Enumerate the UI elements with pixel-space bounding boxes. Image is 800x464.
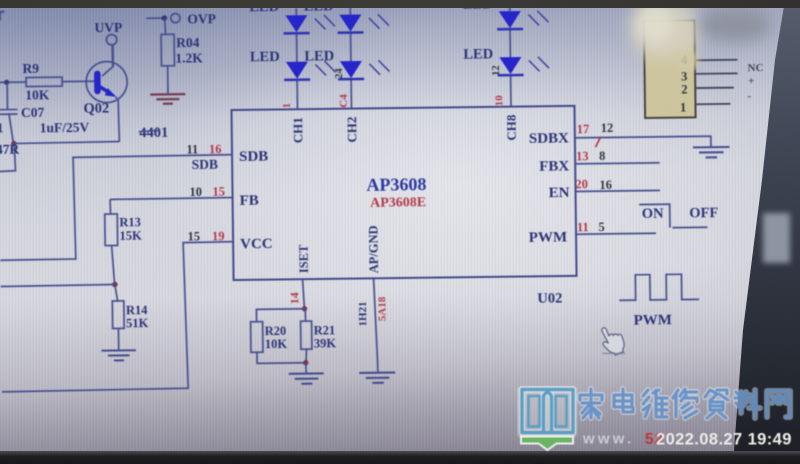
char liao [735, 390, 760, 418]
svg-text:11: 11 [0, 120, 4, 135]
svg-text:FB: FB [240, 193, 259, 209]
cursor hand pointer [599, 324, 626, 358]
LED D1b CH1 lower [286, 62, 308, 79]
node ISET junction [302, 306, 307, 311]
LED D2a CH2 top [339, 14, 361, 31]
ground under R14 [101, 350, 136, 360]
transistor Q02 [86, 61, 127, 102]
svg-text:R20: R20 [265, 324, 287, 338]
svg-text:U02: U02 [537, 291, 562, 307]
bezel reflection patch [763, 213, 790, 263]
svg-text:11: 11 [577, 220, 589, 234]
svg-text:16: 16 [599, 178, 612, 192]
wire pin AP/GND [374, 278, 378, 372]
svg-text:52: 52 [645, 431, 664, 448]
svg-text:10K: 10K [265, 337, 288, 351]
camera top dark band [0, 0, 800, 8]
cursor shadow line [602, 352, 625, 355]
svg-text:C4: C4 [338, 94, 350, 108]
node R20/R21 ground junction [303, 360, 308, 365]
svg-text:OVP: OVP [187, 11, 216, 26]
svg-text:1uF/25V: 1uF/25V [40, 120, 90, 136]
svg-text:OFF: OFF [689, 205, 718, 221]
wire connector pin2 [695, 87, 733, 89]
svg-text:R9: R9 [22, 61, 39, 76]
svg-text:LED: LED [250, 49, 280, 65]
wire R04 to ground [167, 66, 169, 94]
svg-text:NC: NC [747, 62, 763, 74]
LED D8b CH8 lower [499, 57, 521, 74]
svg-text:www.: www. [582, 431, 634, 448]
wire pin EN [576, 190, 660, 191]
wire pin PWM [576, 232, 656, 235]
wire connector pin1 [695, 103, 730, 105]
wire net FB [110, 198, 232, 200]
svg-text:12: 12 [491, 65, 502, 76]
node junction C07 bottom [11, 141, 16, 146]
svg-text:AP3608: AP3608 [366, 174, 426, 195]
svg-text:R04: R04 [176, 35, 200, 50]
wire R14 to ground [117, 328, 119, 349]
switch ON/OFF [639, 204, 707, 228]
svg-text:R14: R14 [126, 303, 148, 317]
svg-text:CH2: CH2 [344, 116, 359, 142]
wire Q02 emitter down [116, 97, 120, 142]
char wei [643, 390, 667, 417]
resistor R20 [251, 322, 263, 353]
wire ISET to R20 [256, 309, 304, 322]
ground under R20 R21 [289, 373, 324, 384]
svg-text:51K: 51K [126, 316, 149, 330]
svg-text:AP/GND: AP/GND [366, 225, 381, 273]
wire OVP stub left [146, 17, 164, 19]
waveform PWM symbol [619, 274, 699, 300]
svg-text:SDB: SDB [239, 149, 268, 165]
svg-text:24: 24 [334, 67, 345, 78]
wire pin CH2 [349, 8, 351, 15]
wire down-left to edge [0, 144, 16, 172]
resistor R9 [26, 77, 62, 86]
svg-text:8: 8 [599, 149, 605, 163]
svg-text:2: 2 [681, 82, 687, 96]
transistor Q02 emitter arrow [100, 87, 109, 93]
char xiu [673, 389, 697, 418]
char zi [705, 390, 728, 418]
ground under R04 [150, 94, 185, 104]
svg-text:LED: LED [463, 46, 493, 62]
svg-text:CH8: CH8 [504, 114, 519, 141]
wire connector pin3 [695, 72, 737, 75]
wire pin FBX [575, 163, 659, 164]
svg-text:10: 10 [493, 95, 505, 107]
wire emitter net horizontal [14, 142, 120, 144]
svg-text:Q02: Q02 [83, 101, 109, 117]
svg-text:12: 12 [601, 121, 614, 135]
resistor R21 [304, 309, 306, 321]
wire net SDB left loop [0, 155, 233, 261]
svg-text:14: 14 [287, 292, 301, 304]
node junction R9/C07 [4, 80, 9, 85]
node OVP junction [162, 15, 168, 21]
svg-text:UVP: UVP [94, 20, 122, 35]
wire pin CH8 [509, 6, 511, 12]
wire OVP to R04 [164, 18, 167, 34]
wire left to R9 [0, 81, 26, 83]
wire junction to left edge [1, 284, 115, 286]
node junction R13/R14 [112, 282, 118, 288]
svg-text:20: 20 [575, 177, 588, 191]
svg-text:SDBX: SDBX [529, 130, 569, 146]
char jia [580, 389, 602, 418]
camera bottom dark band [0, 451, 800, 464]
char dian [614, 389, 633, 412]
svg-text:VCC: VCC [240, 236, 273, 252]
svg-text:13: 13 [576, 149, 589, 163]
connector J1 [644, 20, 738, 118]
watermark www text [582, 431, 792, 449]
svg-text:15: 15 [187, 229, 200, 243]
svg-text:LED: LED [304, 48, 334, 64]
resistor R04 [161, 34, 174, 66]
svg-text:+: + [748, 75, 754, 87]
svg-text:R13: R13 [119, 215, 141, 229]
wire to ground [305, 363, 307, 373]
svg-text:47R: 47R [0, 142, 20, 157]
ground SDBX [693, 147, 730, 158]
wire pin SDBX to ground [575, 136, 711, 148]
svg-text:ON: ON [642, 206, 664, 222]
watermark chinese text [580, 389, 790, 418]
LED D2b CH2 lower [340, 61, 362, 78]
svg-text:FBX: FBX [539, 158, 569, 174]
LED D8a CH8 top [499, 11, 521, 28]
op-amp U02 IC AP3608 body [231, 106, 576, 280]
blur blob above connector [630, 0, 700, 58]
svg-text:17: 17 [577, 122, 590, 136]
label 4401 strike [139, 130, 160, 131]
svg-text:1: 1 [680, 100, 686, 114]
svg-text:-: - [747, 90, 751, 102]
svg-text:ISET: ISET [297, 244, 311, 273]
char wang [767, 391, 790, 417]
wire connector pin4 [695, 59, 737, 62]
svg-text:3: 3 [681, 69, 687, 83]
transistor Q02 base bar [94, 71, 101, 95]
ground under AP/GND [359, 372, 395, 383]
svg-text:C07: C07 [21, 105, 45, 120]
svg-text:5: 5 [598, 220, 604, 234]
svg-text:10K: 10K [25, 87, 50, 102]
watermark green base [521, 437, 573, 451]
svg-text:AP3608E: AP3608E [370, 195, 426, 211]
svg-text:PWM: PWM [634, 312, 673, 328]
svg-text:15: 15 [212, 185, 225, 199]
wire pin ISET [303, 279, 305, 308]
terminal UVP [106, 34, 117, 45]
svg-text:10: 10 [189, 185, 202, 199]
watermark book logo [517, 386, 577, 450]
svg-text:1: 1 [281, 103, 293, 109]
svg-text:4401: 4401 [139, 125, 168, 141]
wire R13 to junction [112, 245, 115, 284]
wire pin CH1 [295, 8, 297, 15]
svg-text:1H21: 1H21 [357, 301, 369, 326]
svg-text:EN: EN [549, 185, 570, 201]
svg-text:PWM: PWM [529, 229, 568, 245]
resistor R13 [109, 199, 111, 214]
wire R9 to Q02 base [62, 80, 94, 82]
wire net VCC loop [0, 242, 235, 392]
svg-text:16: 16 [209, 142, 222, 156]
svg-text:R21: R21 [314, 323, 336, 337]
svg-text:19: 19 [212, 229, 225, 243]
svg-text:15K: 15K [119, 229, 142, 243]
svg-text:5A18: 5A18 [376, 296, 388, 321]
resistor R14 [115, 284, 118, 301]
LED D1a CH1 top [285, 15, 307, 32]
wire R20 bottom [257, 352, 306, 364]
svg-text:39K: 39K [314, 336, 337, 350]
capacitor C07 [0, 82, 18, 143]
wire top-left cut stub [0, 12, 4, 21]
terminal OVP [171, 13, 180, 22]
annotation red slash [595, 137, 601, 148]
svg-text:11: 11 [186, 142, 198, 156]
svg-text:1.2K: 1.2K [175, 50, 203, 65]
wire UVP stub [111, 45, 114, 66]
svg-text:SDB: SDB [192, 157, 218, 172]
svg-text:CH1: CH1 [290, 117, 305, 143]
